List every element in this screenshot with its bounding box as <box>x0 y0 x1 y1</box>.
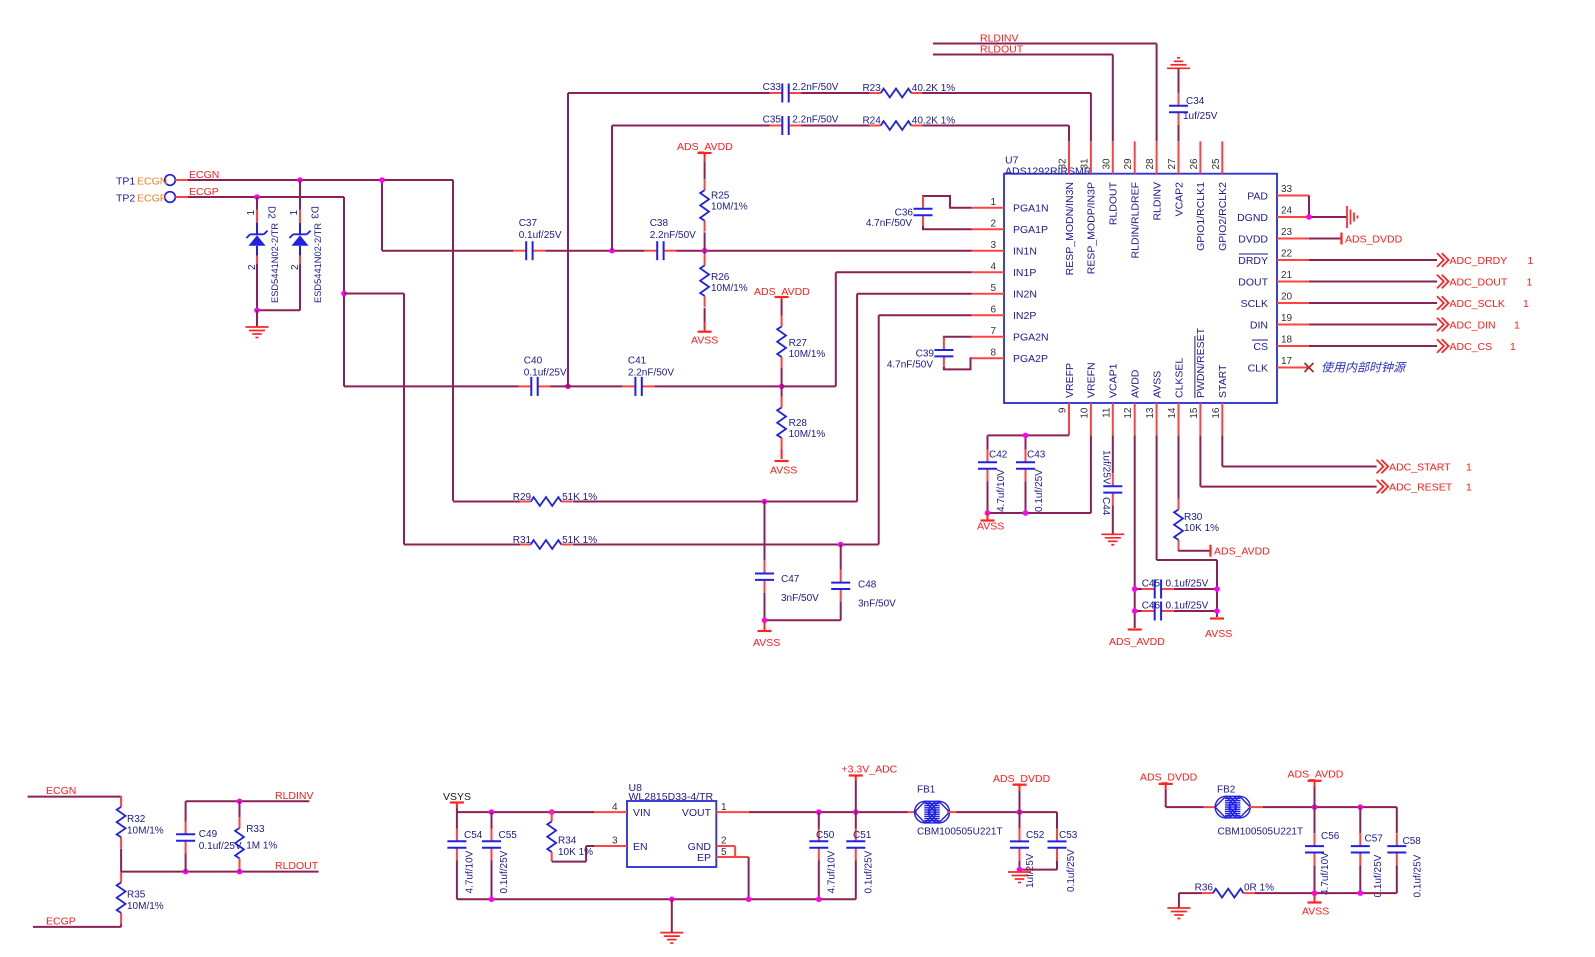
capacitor C53 0.1uf/25V <box>1048 812 1078 892</box>
svg-text:使用内部时钟源: 使用内部时钟源 <box>1321 361 1407 375</box>
capacitor C46 0.1uf/25V <box>1135 601 1217 621</box>
svg-text:FB2: FB2 <box>1217 785 1236 796</box>
pin 5 EP <box>697 847 749 864</box>
svg-text:RLDOUT: RLDOUT <box>980 44 1024 56</box>
wire ECGN horizontal <box>188 179 453 181</box>
pin 9 VREFP <box>1058 363 1076 435</box>
pin 20 SCLK <box>1241 292 1309 310</box>
power ADS_AVDD above R27 <box>754 286 810 300</box>
svg-text:AVSS: AVSS <box>977 521 1004 533</box>
node EP bottom <box>746 897 752 903</box>
pin 15 PWDN/RESET <box>1189 327 1207 435</box>
diode D3 ESD5441N02-2/TR <box>289 180 323 310</box>
svg-text:RLDIN/RLDREF: RLDIN/RLDREF <box>1130 182 1142 258</box>
svg-text:33: 33 <box>1281 184 1293 195</box>
svg-text:R25: R25 <box>711 191 730 202</box>
svg-text:1: 1 <box>721 802 727 813</box>
svg-text:DGND: DGND <box>1237 212 1268 224</box>
wire ECGN bottom <box>28 797 122 801</box>
node R34 top <box>549 809 555 815</box>
svg-text:R35: R35 <box>127 889 146 900</box>
pin 8 PGA2P <box>972 348 1048 365</box>
svg-text:1uf/25V: 1uf/25V <box>1101 450 1112 485</box>
capacitor C33 2.2nF/50V <box>568 82 839 103</box>
svg-text:R29: R29 <box>513 492 532 503</box>
power ADS_DVDD at DVDD pin <box>1309 233 1403 246</box>
pin 23 DVDD <box>1238 227 1309 245</box>
port ADC_START wire <box>1222 435 1472 473</box>
svg-text:IN2P: IN2P <box>1013 310 1036 322</box>
wire AVDD down <box>1134 435 1136 628</box>
svg-text:C44: C44 <box>1100 497 1111 516</box>
svg-text:AVSS: AVSS <box>753 637 780 649</box>
svg-text:AVDD: AVDD <box>1130 369 1142 398</box>
pin 27 VCAP2 <box>1167 141 1185 216</box>
ground left of R36 <box>1167 893 1190 918</box>
ferrite bead FB2 CBM100505U221T <box>1204 785 1304 838</box>
svg-text:ECGP: ECGP <box>137 193 167 205</box>
capacitor C42 4.7uf/10V <box>978 450 1008 514</box>
pin 30 RLDOUT <box>1101 141 1119 225</box>
capacitor C57 0.1uf/25V <box>1351 807 1384 897</box>
net RLDINV wire <box>933 33 1157 142</box>
svg-text:31: 31 <box>1079 158 1090 170</box>
svg-text:C53: C53 <box>1059 830 1078 841</box>
svg-text:CLK: CLK <box>1248 362 1268 374</box>
node diode ground <box>254 308 260 314</box>
wire RLDINV top rail <box>186 800 310 802</box>
power ADS_AVDD right of R30 <box>1211 545 1271 558</box>
svg-text:ADC_SCLK: ADC_SCLK <box>1450 298 1505 310</box>
pin 10 VREFN <box>1079 362 1097 435</box>
svg-text:3: 3 <box>612 836 618 847</box>
svg-text:IN1N: IN1N <box>1013 246 1037 258</box>
svg-text:R26: R26 <box>711 272 730 283</box>
wire ECGN branch down to C37 row <box>381 180 383 251</box>
capacitor C45 0.1uf/25V <box>1135 579 1217 599</box>
svg-text:C54: C54 <box>464 830 483 841</box>
svg-text:R30: R30 <box>1184 512 1203 523</box>
svg-text:0.1uf/25V: 0.1uf/25V <box>1166 601 1209 612</box>
svg-text:15: 15 <box>1189 407 1200 419</box>
svg-text:1: 1 <box>1514 319 1520 331</box>
ground DGND <box>1346 206 1348 228</box>
svg-text:2: 2 <box>290 264 301 270</box>
svg-text:AVSS: AVSS <box>770 465 797 477</box>
node DGND <box>1306 214 1312 220</box>
svg-text:0R 1%: 0R 1% <box>1244 883 1274 894</box>
power ADS_DVDD above C52 <box>993 773 1051 812</box>
svg-text:2.2nF/50V: 2.2nF/50V <box>650 230 696 241</box>
svg-text:10M/1%: 10M/1% <box>127 826 164 837</box>
svg-text:R33: R33 <box>246 824 265 835</box>
svg-text:0.1uf/25V: 0.1uf/25V <box>524 368 567 379</box>
node C48 top <box>838 542 844 548</box>
svg-text:ADS_DVDD: ADS_DVDD <box>993 773 1051 785</box>
wire RLD mid rail <box>121 871 319 873</box>
svg-text:ADC_DIN: ADC_DIN <box>1450 319 1496 331</box>
resistor R34 10K 1% <box>547 811 595 862</box>
svg-text:IN2N: IN2N <box>1013 289 1037 301</box>
port ADC_CS <box>1309 339 1516 353</box>
svg-text:IN1P: IN1P <box>1013 267 1036 279</box>
test point TP2 <box>116 192 190 205</box>
capacitor C34 1uf/25V <box>1169 93 1218 141</box>
wire C33 branch vertical <box>567 93 569 386</box>
svg-text:R23: R23 <box>862 83 881 94</box>
node R33 bottom <box>237 869 243 875</box>
svg-text:2: 2 <box>721 836 727 847</box>
node C43 top <box>1023 433 1029 439</box>
svg-text:GPIO2/RCLK2: GPIO2/RCLK2 <box>1217 182 1229 251</box>
svg-text:0.1uf/25V: 0.1uf/25V <box>519 230 562 241</box>
resistor R27 10M/1% <box>777 300 825 386</box>
svg-text:ADC_DRDY: ADC_DRDY <box>1450 255 1508 267</box>
port ADC_DRDY <box>1309 253 1534 267</box>
svg-text:3nF/50V: 3nF/50V <box>781 593 819 604</box>
node ECGP-D2 <box>254 194 260 200</box>
svg-text:PWDN/RESET: PWDN/RESET <box>1195 327 1207 398</box>
pin 33 PAD <box>1247 184 1309 202</box>
svg-text:10: 10 <box>1079 407 1090 419</box>
svg-text:1M 1%: 1M 1% <box>246 841 277 852</box>
svg-text:EN: EN <box>633 841 648 853</box>
node U8 gnd <box>669 897 675 903</box>
svg-text:14: 14 <box>1167 407 1178 419</box>
svg-text:PGA2P: PGA2P <box>1013 353 1048 365</box>
port ADC_DOUT <box>1309 275 1533 289</box>
svg-text:RESP_MODP/IN3P: RESP_MODP/IN3P <box>1086 182 1098 274</box>
node C47 bottom <box>762 618 768 624</box>
power VSYS <box>443 791 471 812</box>
svg-text:5: 5 <box>990 283 996 294</box>
svg-text:9: 9 <box>1058 407 1069 413</box>
capacitor C58 0.1uf/25V <box>1387 833 1423 897</box>
svg-text:C39: C39 <box>916 349 935 360</box>
ferrite bead FB1 CBM100505U221T <box>908 785 1003 838</box>
svg-text:AVSS: AVSS <box>1302 906 1329 918</box>
svg-text:ECGP: ECGP <box>46 916 76 928</box>
capacitor C38 2.2nF/50V <box>644 218 696 260</box>
svg-text:30: 30 <box>1101 158 1112 170</box>
node C49 bottom <box>183 869 189 875</box>
power ADS_DVDD left of FB2 <box>1140 772 1204 808</box>
ground under C52 <box>1008 871 1031 873</box>
pin 26 GPIO1/RCLK1 <box>1189 141 1207 251</box>
IC U8 WL2815D33-4/TR <box>627 782 716 867</box>
svg-text:3: 3 <box>990 240 996 251</box>
svg-text:18: 18 <box>1281 335 1293 346</box>
node C45 right <box>1214 586 1220 592</box>
svg-text:27: 27 <box>1167 158 1178 170</box>
svg-text:4: 4 <box>990 262 996 273</box>
svg-text:4.7uf/10V: 4.7uf/10V <box>465 850 476 893</box>
power AVSS under C47 <box>753 620 780 649</box>
svg-text:R27: R27 <box>789 338 808 349</box>
wire R29 to IN2N pin <box>573 294 972 502</box>
resistor R25 10M/1% <box>700 162 748 250</box>
svg-text:1: 1 <box>1528 255 1534 267</box>
svg-text:VCAP2: VCAP2 <box>1173 182 1185 217</box>
svg-text:WL2815D33-4/TR: WL2815D33-4/TR <box>629 791 714 803</box>
capacitor C39 4.7nF/50V <box>887 337 972 371</box>
svg-text:21: 21 <box>1281 270 1293 281</box>
svg-text:4: 4 <box>612 802 618 813</box>
node C57 bottom <box>1358 890 1364 896</box>
svg-text:4.7uf/10V: 4.7uf/10V <box>827 850 838 893</box>
wire C38 to IN1N pin <box>676 250 971 252</box>
svg-text:ADC_DOUT: ADC_DOUT <box>1450 276 1508 288</box>
wire C37-C38 <box>545 250 644 252</box>
capacitor C36 4.7nF/50V <box>866 196 972 229</box>
svg-text:ADS_AVDD: ADS_AVDD <box>677 141 733 153</box>
svg-text:2.2nF/50V: 2.2nF/50V <box>792 114 838 125</box>
capacitor C50 4.7uf/10V <box>809 812 837 899</box>
node C55 top <box>489 809 495 815</box>
wire C35 branch vertical <box>611 126 613 251</box>
power ADS_AVDD under AVDD pin <box>1109 630 1165 649</box>
no-connect X on CLK <box>1305 361 1408 375</box>
svg-text:C57: C57 <box>1365 834 1384 845</box>
capacitor C52 1uf/25V <box>1010 812 1045 888</box>
svg-text:C33: C33 <box>763 82 782 93</box>
svg-text:2: 2 <box>247 264 258 270</box>
svg-text:RLDINV: RLDINV <box>1151 182 1163 221</box>
pin 22 DRDY <box>1238 249 1309 267</box>
svg-text:ECGN: ECGN <box>46 785 76 797</box>
capacitor C40 0.1uf/25V <box>344 356 567 396</box>
port ADC_DIN <box>1309 318 1520 332</box>
svg-text:16: 16 <box>1211 407 1222 419</box>
svg-text:R31: R31 <box>513 535 532 546</box>
port ADC_SCLK <box>1309 296 1529 310</box>
capacitor C55 0.1uf/25V <box>482 812 517 899</box>
svg-text:R32: R32 <box>127 814 146 825</box>
ground above C34 <box>1167 58 1190 93</box>
svg-text:VSYS: VSYS <box>443 791 471 803</box>
svg-text:0.1uf/25V: 0.1uf/25V <box>1373 854 1384 897</box>
svg-text:C52: C52 <box>1026 830 1045 841</box>
pin 14 CLKSEL <box>1167 358 1185 436</box>
svg-text:ESD5441N02-2/TR: ESD5441N02-2/TR <box>270 223 280 303</box>
port ADC_RESET wire <box>1200 435 1472 493</box>
svg-text:1: 1 <box>1527 276 1533 288</box>
svg-text:4.7uf/10V: 4.7uf/10V <box>996 469 1007 512</box>
svg-text:0.1uf/25V: 0.1uf/25V <box>1034 469 1045 512</box>
svg-text:23: 23 <box>1281 227 1293 238</box>
svg-text:0.1uf/25V: 0.1uf/25V <box>1066 849 1077 892</box>
pin 18 CS <box>1252 335 1309 353</box>
svg-text:CBM100505U221T: CBM100505U221T <box>917 827 1003 838</box>
svg-text:13: 13 <box>1145 407 1156 419</box>
svg-text:1: 1 <box>990 197 996 208</box>
capacitor C47 3nF/50V <box>755 501 819 621</box>
power AVSS under right rail <box>1205 619 1232 641</box>
svg-text:6: 6 <box>990 305 996 316</box>
pin 2 GND <box>688 836 735 858</box>
svg-text:28: 28 <box>1145 158 1156 170</box>
svg-text:CS: CS <box>1253 341 1268 353</box>
svg-text:R24: R24 <box>862 116 881 127</box>
capacitor C35 2.2nF/50V <box>612 114 839 135</box>
svg-text:7: 7 <box>990 326 996 337</box>
wire ECGN down to R29 <box>452 180 454 501</box>
svg-text:C49: C49 <box>199 829 218 840</box>
svg-text:TP2: TP2 <box>116 193 135 205</box>
node +3.3V <box>853 809 859 815</box>
power AVSS under R28 <box>770 461 797 477</box>
node R25/R26 <box>702 248 708 254</box>
power AVSS under C42 <box>977 513 1004 533</box>
svg-text:D3: D3 <box>309 206 320 219</box>
svg-text:10M/1%: 10M/1% <box>711 283 748 294</box>
wire R36 to caps bottom rail <box>1255 892 1397 894</box>
wire ECGP bottom <box>33 926 121 928</box>
wire R23 to pin31 <box>922 93 1091 141</box>
resistor R32 10M/1% <box>117 796 164 872</box>
svg-text:1: 1 <box>246 210 257 216</box>
svg-text:VREFN: VREFN <box>1086 362 1098 398</box>
power ADS_AVDD above C56 <box>1288 769 1344 808</box>
wire C40-C41 <box>551 385 623 387</box>
pin 29 RLDIN/RLDREF <box>1123 141 1141 258</box>
svg-text:ECGN: ECGN <box>137 176 167 188</box>
svg-text:ESD5441N02-2/TR: ESD5441N02-2/TR <box>313 223 323 303</box>
svg-text:5: 5 <box>721 847 727 858</box>
IC U7 ADS1292RIRSMR body <box>1004 155 1277 404</box>
svg-text:C47: C47 <box>781 574 800 585</box>
svg-text:GPIO1/RCLK1: GPIO1/RCLK1 <box>1195 182 1207 251</box>
svg-text:2.2nF/50V: 2.2nF/50V <box>792 82 838 93</box>
power +3.3V_ADC <box>842 764 898 813</box>
wire VREFN rail <box>988 435 1091 513</box>
svg-text:C42: C42 <box>989 450 1008 461</box>
node C43 bottom <box>1023 510 1029 516</box>
svg-text:1: 1 <box>1466 461 1472 473</box>
svg-text:C38: C38 <box>650 218 669 229</box>
pin 13 AVSS <box>1145 371 1163 436</box>
svg-text:RESP_MODN/IN3N: RESP_MODN/IN3N <box>1064 182 1076 275</box>
resistor R30 10K 1% <box>1174 435 1219 551</box>
svg-text:4.7nF/50V: 4.7nF/50V <box>887 359 933 370</box>
svg-text:EP: EP <box>697 852 711 864</box>
pin 4 IN1P <box>972 262 1037 279</box>
capacitor C43 0.1uf/25V <box>1016 450 1046 514</box>
svg-text:10M/1%: 10M/1% <box>127 901 164 912</box>
node C35 join <box>609 248 615 254</box>
svg-text:DOUT: DOUT <box>1238 276 1268 288</box>
svg-text:VIN: VIN <box>633 807 651 819</box>
node C56 bottom <box>1312 890 1318 896</box>
capacitor C48 3nF/50V <box>831 545 896 621</box>
node ADS_DVDD C52 <box>1017 809 1023 815</box>
svg-text:C37: C37 <box>519 218 538 229</box>
capacitor C37 0.1uf/25V <box>382 218 562 260</box>
ground under D2/D3 <box>246 310 269 337</box>
svg-text:ADS_AVDD: ADS_AVDD <box>1109 636 1165 648</box>
svg-text:VCAP1: VCAP1 <box>1108 363 1120 398</box>
svg-text:C43: C43 <box>1027 450 1046 461</box>
pin 1 PGA1N <box>972 197 1049 214</box>
pin 5 IN2N <box>972 283 1037 300</box>
wire ECGP horizontal <box>188 196 344 198</box>
pin 32 RESP_MODN/IN3N <box>1058 141 1076 275</box>
wire C47-C48 bottom <box>765 619 841 621</box>
svg-text:24: 24 <box>1281 206 1293 217</box>
pin 3 EN <box>594 836 648 853</box>
resistor R28 10M/1% <box>777 386 825 459</box>
wire VREFP rail <box>988 435 1070 449</box>
svg-text:PGA1N: PGA1N <box>1013 203 1049 215</box>
node C50 top <box>816 809 822 815</box>
capacitor C56 4.7uf/10V <box>1305 807 1340 895</box>
power AVSS under C56 <box>1302 893 1329 917</box>
node R33 top <box>237 799 243 805</box>
wire ECGP down to C40 row <box>343 197 345 386</box>
node R27/R28 <box>779 384 785 390</box>
svg-text:25: 25 <box>1211 158 1222 170</box>
svg-text:START: START <box>1217 364 1229 398</box>
pin 6 IN2P <box>972 305 1037 322</box>
svg-text:GND: GND <box>688 841 712 853</box>
svg-text:10K 1%: 10K 1% <box>558 847 593 858</box>
pin 12 AVDD <box>1123 369 1141 435</box>
wire ECGP branch down to R31 <box>403 294 405 545</box>
svg-text:PAD: PAD <box>1247 190 1268 202</box>
node ECGN-D3 <box>297 177 303 183</box>
svg-text:RLDOUT: RLDOUT <box>1108 181 1120 225</box>
svg-text:C41: C41 <box>628 356 647 367</box>
capacitor C54 4.7uf/10V <box>447 812 482 899</box>
node C33 join <box>565 384 571 390</box>
wire ECGP branch right <box>344 293 404 295</box>
wire R31 to IN2P pin <box>573 315 972 544</box>
resistor R36 0R 1% <box>1179 883 1274 898</box>
node C50 bottom <box>816 897 822 903</box>
svg-text:R34: R34 <box>558 836 577 847</box>
pin 3 IN1N <box>972 240 1037 257</box>
svg-text:1: 1 <box>1466 481 1472 493</box>
test point TP1 <box>116 175 190 188</box>
wire AVSS down <box>1157 435 1217 617</box>
svg-text:ADS_DVDD: ADS_DVDD <box>1140 772 1198 784</box>
svg-text:DVDD: DVDD <box>1238 233 1268 245</box>
resistor R23 40.2K 1% <box>802 83 956 97</box>
svg-text:PGA2N: PGA2N <box>1013 332 1049 344</box>
svg-text:AVSS: AVSS <box>1151 371 1163 398</box>
svg-text:C34: C34 <box>1186 96 1205 107</box>
resistor R35 10M/1% <box>117 872 164 927</box>
svg-text:ADC_START: ADC_START <box>1389 461 1451 473</box>
svg-text:20: 20 <box>1281 292 1293 303</box>
svg-text:C40: C40 <box>524 356 543 367</box>
svg-text:0.1uf/25V: 0.1uf/25V <box>1166 579 1209 590</box>
node C55 bottom <box>489 897 495 903</box>
resistor R31 51K 1% <box>404 535 597 549</box>
svg-text:+3.3V_ADC: +3.3V_ADC <box>842 764 898 776</box>
svg-text:VREFP: VREFP <box>1064 363 1076 398</box>
svg-text:CBM100505U221T: CBM100505U221T <box>1218 827 1304 838</box>
diode D2 ESD5441N02-2/TR <box>246 197 280 310</box>
pin 11 VCAP1 <box>1101 363 1119 435</box>
svg-text:FB1: FB1 <box>917 785 936 796</box>
pin 19 DIN <box>1250 313 1309 331</box>
svg-text:26: 26 <box>1189 158 1200 170</box>
svg-text:AVSS: AVSS <box>1205 628 1232 640</box>
svg-text:8: 8 <box>990 348 996 359</box>
svg-text:22: 22 <box>1281 249 1293 260</box>
svg-text:RLDINV: RLDINV <box>275 790 314 802</box>
